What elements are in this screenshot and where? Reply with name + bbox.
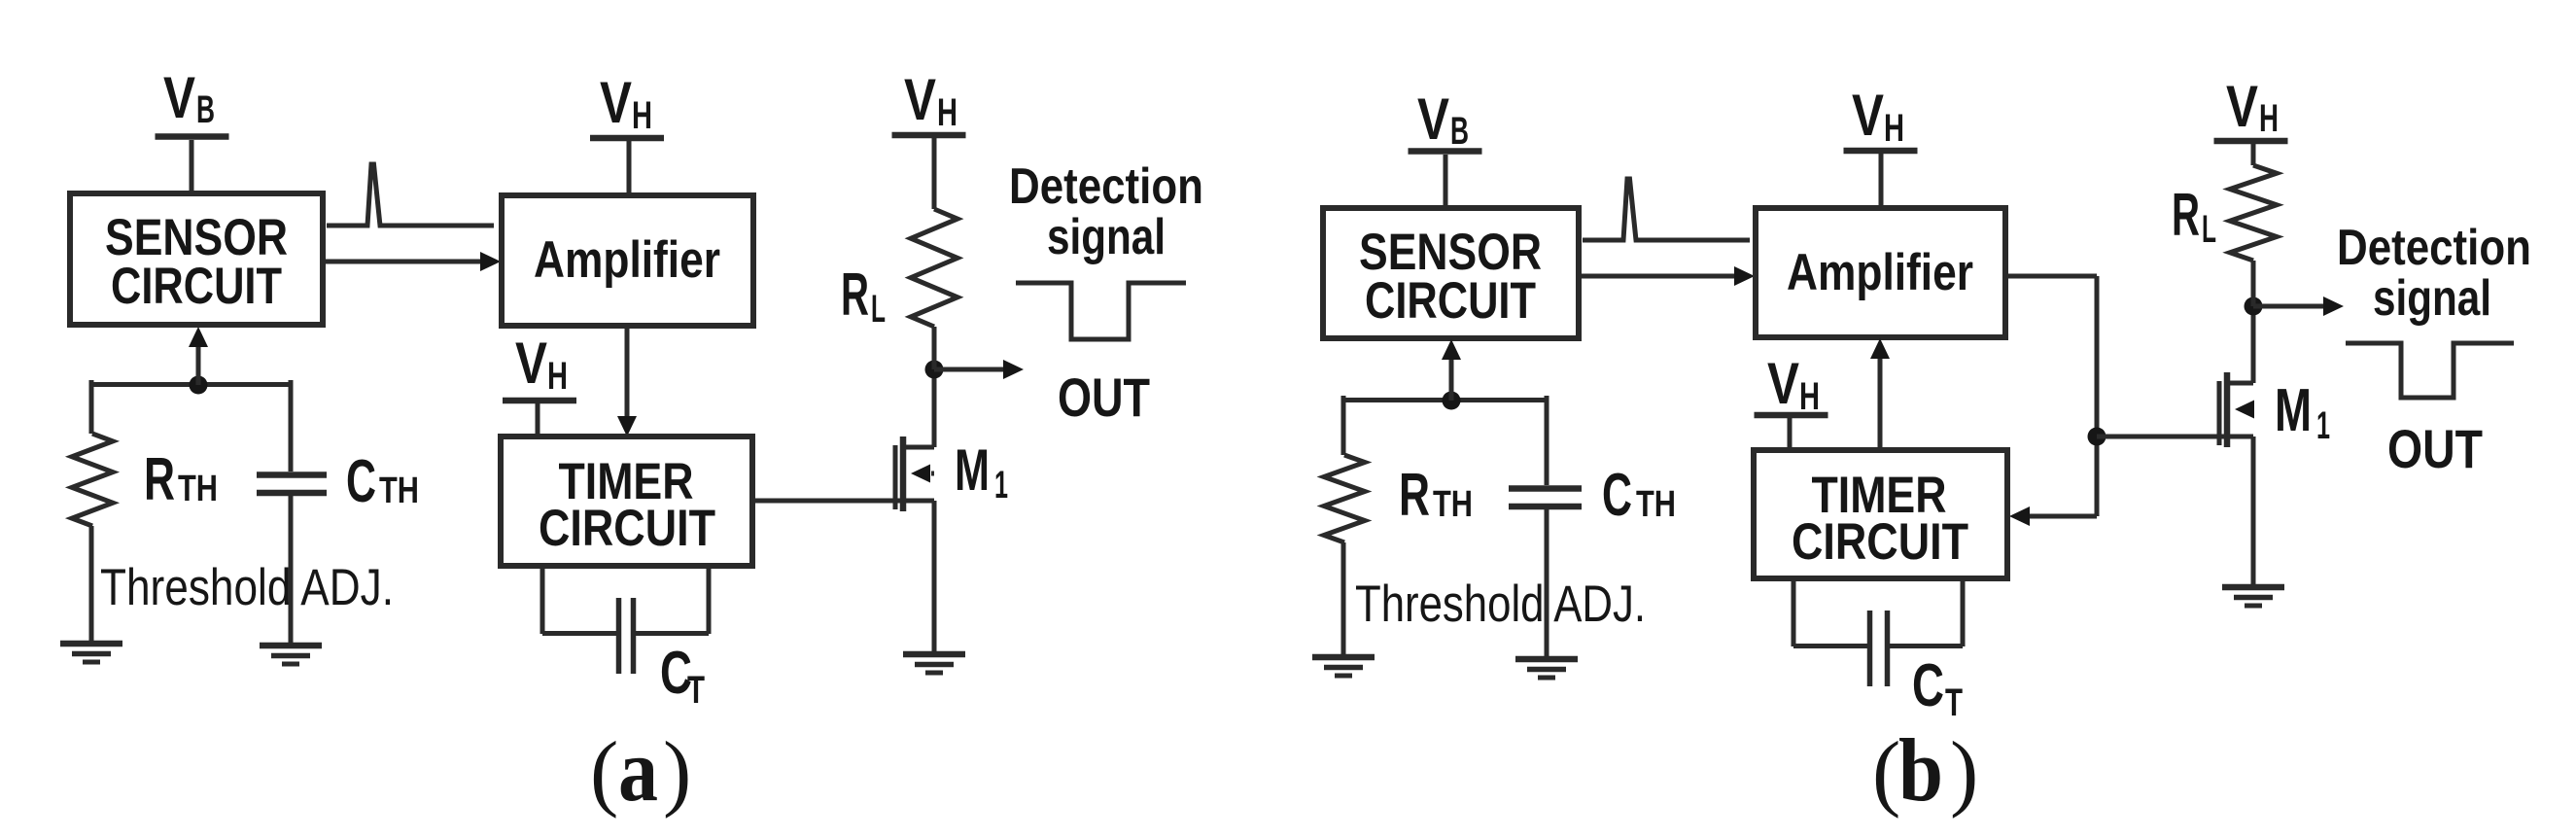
svg-text:a: a [618,720,658,820]
svg-text:T: T [1945,681,1963,724]
svg-text:V: V [2226,74,2258,139]
svg-text:V: V [515,331,547,396]
svg-text:): ) [663,725,691,820]
svg-text:H: H [937,91,957,134]
svg-text:T: T [687,669,705,712]
svg-text:signal: signal [2373,270,2491,327]
svg-text:V: V [1417,87,1449,152]
svg-text:V: V [1767,351,1799,416]
svg-text:M: M [955,437,990,503]
svg-text:b: b [1898,720,1943,820]
svg-text:R: R [1399,462,1430,529]
svg-text:L: L [871,288,886,331]
svg-text:1: 1 [994,464,1008,506]
svg-text:CIRCUIT: CIRCUIT [539,500,715,557]
svg-text:(: ( [590,725,618,820]
svg-text:R: R [144,446,175,513]
svg-text:V: V [1852,83,1884,148]
svg-text:H: H [1799,375,1820,418]
svg-text:CIRCUIT: CIRCUIT [1365,272,1536,330]
svg-text:H: H [547,355,568,398]
svg-text:C: C [346,448,376,515]
svg-text:OUT: OUT [1058,367,1150,428]
svg-text:CIRCUIT: CIRCUIT [1792,513,1968,571]
svg-text:R: R [841,262,869,329]
svg-text:C: C [1602,462,1632,529]
svg-text:(: ( [1872,725,1900,820]
svg-text:Threshold ADJ.: Threshold ADJ. [1355,576,1646,633]
svg-text:B: B [196,88,215,131]
svg-text:V: V [904,67,936,132]
svg-text:H: H [2259,97,2279,140]
svg-text:M: M [2275,377,2312,444]
svg-text:C: C [1912,652,1944,719]
svg-text:1: 1 [2316,404,2330,447]
svg-text:B: B [1450,110,1469,153]
svg-text:V: V [600,70,632,135]
svg-text:Detection: Detection [2337,220,2531,276]
svg-text:Amplifier: Amplifier [1787,244,1973,301]
svg-text:Amplifier: Amplifier [534,231,720,289]
svg-text:TH: TH [178,469,218,509]
svg-text:V: V [163,65,195,130]
svg-text:Detection: Detection [1009,158,1203,215]
svg-text:): ) [1950,725,1978,820]
svg-text:Threshold ADJ.: Threshold ADJ. [100,559,394,616]
svg-text:TH: TH [1433,484,1473,525]
svg-text:CIRCUIT: CIRCUIT [111,258,282,315]
svg-text:TH: TH [379,471,419,511]
svg-text:signal: signal [1047,209,1166,265]
svg-text:TH: TH [1636,484,1676,525]
svg-text:H: H [1884,107,1904,150]
svg-text:L: L [2202,208,2216,251]
svg-text:OUT: OUT [2387,418,2483,479]
svg-text:H: H [632,94,652,137]
svg-text:R: R [2172,182,2200,249]
